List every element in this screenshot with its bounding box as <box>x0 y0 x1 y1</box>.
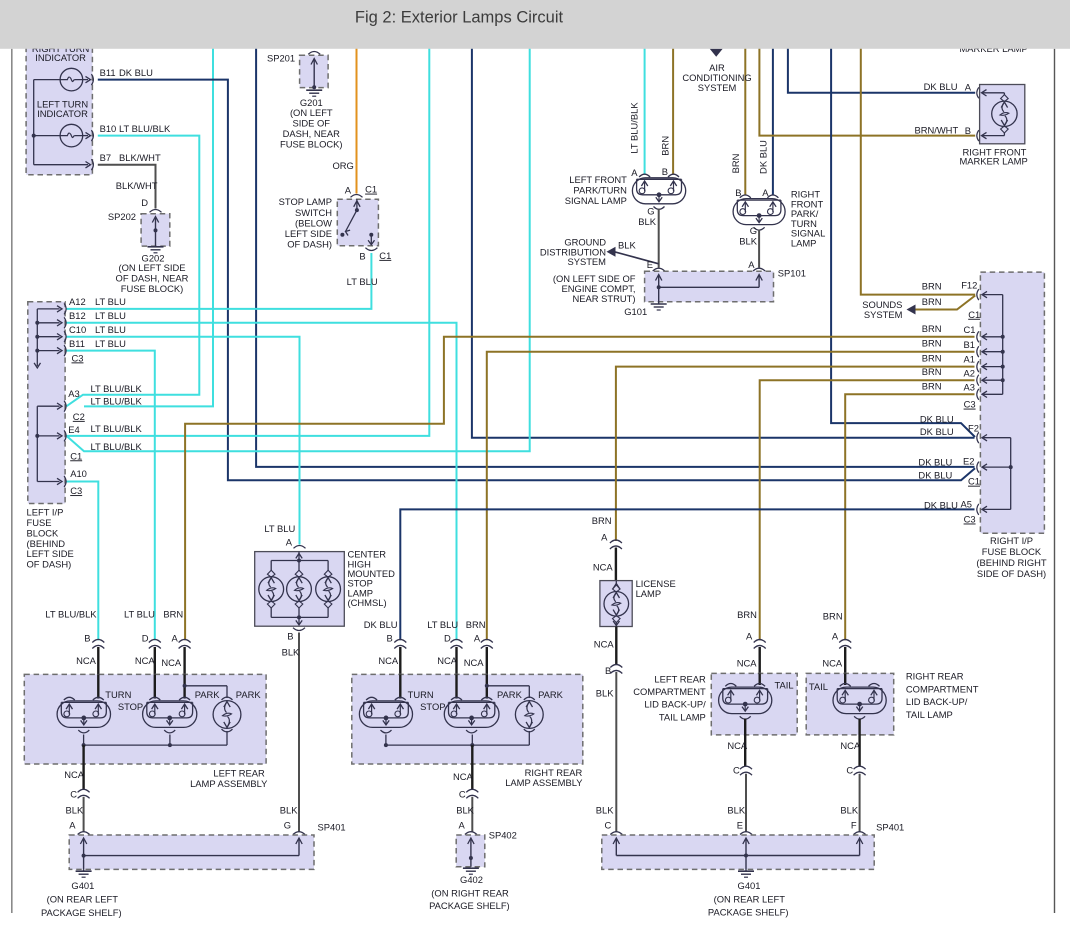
svg-text:BLOCK: BLOCK <box>27 527 60 538</box>
svg-text:PARK: PARK <box>538 689 564 700</box>
svg-text:D: D <box>141 197 148 208</box>
svg-text:B: B <box>84 632 90 643</box>
svg-text:SP201: SP201 <box>267 53 295 64</box>
ground G401 left <box>83 869 85 870</box>
svg-text:SYSTEM: SYSTEM <box>567 256 606 267</box>
left fuse block internal bus lower <box>36 406 38 481</box>
marker lamp bulb <box>992 101 1017 126</box>
left turn indicator bulb <box>60 124 83 147</box>
svg-text:C: C <box>605 820 612 831</box>
svg-text:NCA: NCA <box>161 657 182 668</box>
pin B of switch <box>365 248 377 251</box>
wire BRN/WHT trunk to right front marker lamp B <box>759 38 975 136</box>
wires NCA into right rear lamp <box>399 647 401 674</box>
splice SP401 right box <box>610 832 622 835</box>
svg-text:(ON LEFT: (ON LEFT <box>290 107 333 118</box>
svg-text:D: D <box>142 632 149 643</box>
svg-text:LEFT SIDE: LEFT SIDE <box>27 548 74 559</box>
SP101 internal wiring <box>658 276 660 288</box>
svg-text:DK BLU: DK BLU <box>920 413 954 424</box>
svg-text:G401: G401 <box>71 880 94 891</box>
svg-text:(BEHIND RIGHT: (BEHIND RIGHT <box>976 557 1047 568</box>
svg-text:A: A <box>748 259 755 270</box>
left front park/turn lamp bulb <box>632 178 685 204</box>
wire BLK to SP401 A <box>83 797 85 832</box>
svg-text:A: A <box>601 531 608 542</box>
svg-text:B10: B10 <box>100 123 117 134</box>
svg-text:PACKAGE SHELF): PACKAGE SHELF) <box>708 907 789 918</box>
svg-text:C: C <box>459 789 466 800</box>
svg-text:PARK: PARK <box>497 689 523 700</box>
svg-text:LT BLU/BLK: LT BLU/BLK <box>91 423 143 434</box>
svg-text:C1: C1 <box>968 476 980 487</box>
left rear PARK single bulb <box>213 701 241 729</box>
svg-text:BRN: BRN <box>730 154 741 174</box>
svg-text:PARK/TURN: PARK/TURN <box>573 185 626 196</box>
svg-text:LT BLU: LT BLU <box>347 276 378 287</box>
svg-text:SOUNDS: SOUNDS <box>862 299 902 310</box>
svg-text:F: F <box>851 820 857 831</box>
svg-text:BLK: BLK <box>280 805 298 816</box>
svg-text:PARK: PARK <box>195 689 221 700</box>
svg-text:A3: A3 <box>68 388 79 399</box>
svg-text:A: A <box>286 536 293 547</box>
svg-text:LT BLU/BLK: LT BLU/BLK <box>91 441 143 452</box>
svg-text:LAMP: LAMP <box>636 588 662 599</box>
svg-text:A: A <box>345 185 352 196</box>
svg-text:SIDE OF: SIDE OF <box>293 118 331 129</box>
svg-text:BLK: BLK <box>282 647 300 658</box>
right rear TURN bulb <box>359 701 412 728</box>
svg-text:LT BLU: LT BLU <box>264 523 295 534</box>
svg-text:FUSE BLOCK): FUSE BLOCK) <box>280 138 343 149</box>
svg-text:E: E <box>647 259 653 270</box>
left rear STOP/PARK dual bulb <box>143 701 197 728</box>
svg-text:NCA: NCA <box>727 740 748 751</box>
svg-text:C1: C1 <box>379 250 391 261</box>
svg-text:Fig 2: Exterior Lamps Circuit: Fig 2: Exterior Lamps Circuit <box>355 9 564 27</box>
right tail lamp TAIL bulb <box>833 687 886 714</box>
wire NCA inside right tail lamp box <box>844 673 846 685</box>
svg-text:DASH, NEAR: DASH, NEAR <box>283 128 341 139</box>
svg-text:A1: A1 <box>964 354 975 365</box>
svg-text:BRN: BRN <box>163 608 183 619</box>
pin B7 arrow <box>86 162 91 168</box>
center high mounted stop lamp box <box>255 552 345 627</box>
right rear ground bus <box>385 735 387 746</box>
svg-text:D: D <box>444 632 451 643</box>
wire LT BLU/BLK trunk to left front lamp A <box>644 38 646 174</box>
svg-text:LID BACK-UP/: LID BACK-UP/ <box>906 696 968 707</box>
svg-text:STOP LAMP: STOP LAMP <box>279 196 332 207</box>
svg-text:C1: C1 <box>964 324 976 335</box>
svg-text:LT BLU/BLK: LT BLU/BLK <box>91 383 143 394</box>
wire NCA into left tail lamp <box>759 647 761 673</box>
left rear lamp assembly box <box>24 674 266 764</box>
svg-text:A: A <box>965 82 972 93</box>
svg-text:C3: C3 <box>72 352 84 363</box>
header bar <box>0 0 1070 49</box>
wire LT BLU C10 to CHMSL <box>67 337 300 545</box>
svg-text:A: A <box>474 632 481 643</box>
svg-text:BRN: BRN <box>737 609 757 620</box>
ground G201 <box>306 89 322 91</box>
svg-text:C1: C1 <box>968 309 980 320</box>
wire NCA into license lamp <box>615 548 617 582</box>
svg-text:A: A <box>69 820 76 831</box>
svg-text:BRN: BRN <box>922 366 942 377</box>
svg-text:SYSTEM: SYSTEM <box>864 309 903 320</box>
svg-text:INDICATOR: INDICATOR <box>37 108 88 119</box>
wires NCA inside right rear lamp box <box>399 674 401 698</box>
splice SP401 left box <box>78 832 90 835</box>
wire DK BLU trunk to F2 lower <box>472 38 975 438</box>
svg-text:BLK: BLK <box>66 805 84 816</box>
svg-text:E4: E4 <box>68 424 79 435</box>
license lamp box <box>600 581 632 627</box>
svg-text:A: A <box>172 632 179 643</box>
wire NCA into right tail lamp <box>844 647 846 673</box>
wire LT BLU B11pin to left rear lamp D <box>67 351 155 641</box>
left rear ground bus <box>83 735 85 746</box>
SP402 internal wire <box>470 840 472 867</box>
svg-text:LT BLU: LT BLU <box>95 310 126 321</box>
svg-text:DK BLU: DK BLU <box>918 457 952 468</box>
svg-text:C3: C3 <box>964 399 976 410</box>
wire BRN B1 to right rear lamp A <box>487 352 975 641</box>
svg-text:STOP: STOP <box>420 701 445 712</box>
svg-text:SP401: SP401 <box>318 822 346 833</box>
svg-text:LT BLU/BLK: LT BLU/BLK <box>119 123 171 134</box>
SP202 internal wire <box>155 218 157 246</box>
right fuse block pin arcs <box>977 289 979 300</box>
svg-text:NCA: NCA <box>464 657 485 668</box>
svg-text:INDICATOR: INDICATOR <box>35 52 86 63</box>
wire BRN A3 to right tail lamp <box>845 394 974 640</box>
svg-text:COMPARTMENT: COMPARTMENT <box>906 683 979 694</box>
svg-text:C1: C1 <box>70 450 82 461</box>
svg-text:TAIL LAMP: TAIL LAMP <box>906 709 953 720</box>
CHMSL bulb 2 <box>287 577 312 602</box>
CHMSL bulb 3 <box>316 577 341 602</box>
svg-text:OF DASH): OF DASH) <box>287 239 332 250</box>
wire BLK to SP401 E <box>745 774 747 832</box>
svg-text:LT BLU: LT BLU <box>95 296 126 307</box>
svg-text:G401: G401 <box>738 880 761 891</box>
svg-text:LAMP ASSEMBLY: LAMP ASSEMBLY <box>190 778 268 789</box>
svg-text:C3: C3 <box>70 485 82 496</box>
svg-text:LEFT REAR: LEFT REAR <box>654 674 706 685</box>
wire DK BLU trunk to E2 upper <box>256 38 974 467</box>
splice SP402 box <box>465 832 477 835</box>
svg-text:BRN: BRN <box>592 515 612 526</box>
svg-text:C: C <box>70 789 77 800</box>
ground G402 <box>463 867 479 869</box>
svg-text:LEFT REAR: LEFT REAR <box>213 767 265 778</box>
svg-text:SIGNAL LAMP: SIGNAL LAMP <box>565 195 627 206</box>
svg-text:BLK: BLK <box>618 240 636 251</box>
svg-text:C: C <box>846 765 853 776</box>
wire DK BLU B11 from left turn indicator to E2 <box>98 80 975 481</box>
wire BLK right front lamp G to SP101 A <box>758 230 760 268</box>
wire LT BLU B12 to right rear lamp D <box>67 323 457 640</box>
svg-text:LT BLU: LT BLU <box>427 619 458 630</box>
left fuse block internal bus upper <box>36 309 38 366</box>
svg-text:DK BLU: DK BLU <box>924 500 958 511</box>
svg-text:BLK: BLK <box>596 804 614 815</box>
svg-text:(BELOW: (BELOW <box>295 217 332 228</box>
ground distribution system arrow <box>607 247 616 257</box>
wire BLK CHMSL to SP401 G <box>298 633 300 832</box>
wire BLK/WHT B7 to SP202 <box>98 165 156 209</box>
svg-text:A12: A12 <box>69 296 86 307</box>
wire BRN C1 to left rear lamp A <box>185 337 974 640</box>
svg-text:B: B <box>965 125 971 136</box>
wire LT BLU trunk to E4 upper <box>67 38 430 436</box>
svg-text:TURN: TURN <box>105 689 131 700</box>
splice SP202 box <box>150 210 162 213</box>
right tail lamp box <box>806 673 894 735</box>
svg-text:FUSE BLOCK: FUSE BLOCK <box>982 546 1042 557</box>
svg-text:NCA: NCA <box>737 657 758 668</box>
svg-text:NCA: NCA <box>437 655 458 666</box>
svg-text:SYSTEM: SYSTEM <box>698 82 737 93</box>
left tail lamp box <box>711 673 797 735</box>
svg-text:E: E <box>737 820 743 831</box>
svg-text:SIDE OF DASH): SIDE OF DASH) <box>977 568 1046 579</box>
svg-text:TAIL: TAIL <box>809 681 828 692</box>
wire BLK left front lamp G to SP101 E <box>658 209 660 268</box>
svg-text:LT BLU/BLK: LT BLU/BLK <box>91 395 143 406</box>
svg-text:BRN: BRN <box>922 338 942 349</box>
wire DK BLU trunk to right front lamp A <box>772 38 774 195</box>
svg-text:BRN: BRN <box>922 281 942 292</box>
svg-text:C3: C3 <box>964 514 976 525</box>
svg-text:NCA: NCA <box>453 771 474 782</box>
svg-text:BRN: BRN <box>922 323 942 334</box>
wire BRN trunk to F12 <box>861 38 975 295</box>
svg-text:A5: A5 <box>961 499 972 510</box>
svg-text:(CHMSL): (CHMSL) <box>348 597 387 608</box>
right rear assembly exit wire <box>471 745 473 789</box>
svg-text:(ON REAR LEFT: (ON REAR LEFT <box>47 894 119 905</box>
CHMSL internal wiring <box>298 552 300 561</box>
wire DK BLU trunk to right front marker lamp A <box>788 38 975 93</box>
svg-text:B: B <box>662 166 668 177</box>
svg-text:LT BLU: LT BLU <box>124 608 155 619</box>
svg-text:NCA: NCA <box>135 655 156 666</box>
svg-text:BLK: BLK <box>739 235 757 246</box>
svg-text:F12: F12 <box>961 279 977 290</box>
SP401 left internal wiring <box>83 840 85 856</box>
svg-text:SP401: SP401 <box>876 822 904 833</box>
wire BRN A2 to left tail lamp <box>760 380 975 640</box>
svg-text:G201: G201 <box>300 97 323 108</box>
wire BRN A1 to license lamp <box>616 367 975 541</box>
svg-text:C10: C10 <box>69 324 86 335</box>
svg-text:B: B <box>287 630 293 641</box>
svg-text:BLK: BLK <box>840 804 858 815</box>
CHMSL bulb 1 <box>259 577 284 602</box>
svg-text:BRN: BRN <box>922 296 942 307</box>
svg-text:B12: B12 <box>69 310 86 321</box>
page border left <box>11 49 13 913</box>
wire BRN trunk to left front lamp B <box>672 38 674 174</box>
svg-text:NCA: NCA <box>594 639 615 650</box>
svg-text:PACKAGE SHELF): PACKAGE SHELF) <box>429 900 510 911</box>
svg-text:(ON RIGHT REAR: (ON RIGHT REAR <box>431 887 509 898</box>
svg-text:A10: A10 <box>70 468 87 479</box>
svg-text:TAIL: TAIL <box>775 680 794 691</box>
svg-text:DK BLU: DK BLU <box>119 67 153 78</box>
svg-text:PARK: PARK <box>236 689 262 700</box>
wire BLK license lamp to SP401 C <box>615 672 617 832</box>
svg-text:LEFT FRONT: LEFT FRONT <box>569 174 627 185</box>
right front park/turn lamp bulb <box>733 199 785 225</box>
splice SP101 box <box>653 268 665 271</box>
right fuse block internal bus upper <box>1002 295 1004 395</box>
wire BRN F12 to sounds system <box>914 296 975 310</box>
air conditioning system off-page arrow <box>710 49 723 57</box>
svg-text:NCA: NCA <box>76 655 97 666</box>
right I/P fuse block box <box>980 272 1044 533</box>
svg-text:LID BACK-UP/: LID BACK-UP/ <box>644 699 706 710</box>
svg-text:RIGHT I/P: RIGHT I/P <box>990 535 1033 546</box>
left rear TURN bulb <box>57 701 110 728</box>
right fuse block internal bus lower <box>1010 438 1012 510</box>
svg-text:BLK: BLK <box>596 687 614 698</box>
right rear STOP/PARK dual bulb <box>444 701 499 728</box>
right rear PARK single bulb <box>515 701 543 729</box>
svg-text:C1: C1 <box>365 184 377 195</box>
svg-text:DK BLU: DK BLU <box>918 470 952 481</box>
svg-text:B11: B11 <box>69 338 85 349</box>
sounds system arrow <box>907 305 916 315</box>
svg-text:TURN: TURN <box>408 689 434 700</box>
SP401 right internal wiring <box>615 840 617 856</box>
svg-text:A2: A2 <box>964 367 975 378</box>
svg-text:FUSE BLOCK): FUSE BLOCK) <box>121 283 184 294</box>
wire ORG trunk to stop lamp switch <box>356 38 358 194</box>
svg-text:BLK: BLK <box>638 216 656 227</box>
ground G401 right <box>745 869 747 870</box>
svg-text:LEFT I/P: LEFT I/P <box>27 506 64 517</box>
svg-text:BLK: BLK <box>456 805 474 816</box>
svg-text:A: A <box>459 820 466 831</box>
svg-text:LT BLU/BLK: LT BLU/BLK <box>45 608 97 619</box>
svg-text:BLK/WHT: BLK/WHT <box>116 180 158 191</box>
svg-text:DK BLU: DK BLU <box>758 140 769 174</box>
right rear PARK branch wire <box>485 684 489 688</box>
svg-text:(ON REAR LEFT: (ON REAR LEFT <box>714 894 786 905</box>
wire LT BLU/BLK B10 to A3 upper <box>67 136 200 407</box>
left rear PARK branch wire <box>183 684 187 688</box>
svg-text:LEFT SIDE: LEFT SIDE <box>285 228 332 239</box>
svg-text:COMPARTMENT: COMPARTMENT <box>633 686 706 697</box>
svg-text:A3: A3 <box>964 381 975 392</box>
indicator internal bus wire <box>33 80 35 165</box>
svg-text:LT BLU: LT BLU <box>95 338 126 349</box>
wire LT BLU E4 lower to top <box>67 38 530 451</box>
svg-text:E2: E2 <box>963 455 974 466</box>
svg-text:G402: G402 <box>460 874 483 885</box>
wire LT BLU switch B to A12 <box>67 253 372 309</box>
svg-text:B: B <box>387 632 393 643</box>
license lamp bulb <box>615 581 617 586</box>
wire DK BLU trunk to F2 upper <box>831 38 975 437</box>
svg-text:NCA: NCA <box>822 657 843 668</box>
pin B10 arrow <box>83 135 88 137</box>
svg-text:SP402: SP402 <box>489 830 517 841</box>
right rear lamp assembly box <box>352 674 583 764</box>
svg-text:(BEHIND: (BEHIND <box>27 538 66 549</box>
svg-text:DK BLU: DK BLU <box>920 426 954 437</box>
svg-text:LT BLU/BLK: LT BLU/BLK <box>629 102 640 154</box>
page border right <box>1054 49 1056 913</box>
wire NCA inside left tail lamp box <box>759 673 761 685</box>
splice SP201 box <box>308 52 320 55</box>
svg-text:FUSE: FUSE <box>27 517 52 528</box>
wire LT BLU trunk to A3 lower <box>84 38 213 406</box>
svg-text:G: G <box>284 820 291 831</box>
wire BLK to SP402 A <box>471 797 473 832</box>
svg-text:(ON LEFT SIDE: (ON LEFT SIDE <box>118 262 185 273</box>
wires NCA into left rear lamp <box>97 647 99 674</box>
left I/P fuse block box <box>28 302 65 504</box>
wire BRN trunk to right front lamp B <box>744 38 746 195</box>
svg-text:BRN: BRN <box>922 380 942 391</box>
svg-text:RIGHT REAR: RIGHT REAR <box>906 671 964 682</box>
svg-text:BLK/WHT: BLK/WHT <box>119 152 161 163</box>
ground G101 <box>651 303 667 305</box>
svg-text:BRN: BRN <box>823 610 843 621</box>
svg-text:C: C <box>733 765 740 776</box>
wire DK BLU A5 to right rear lamp B <box>400 509 974 640</box>
svg-text:LAMP ASSEMBLY: LAMP ASSEMBLY <box>505 777 583 788</box>
marker lamp internal wiring <box>982 90 987 96</box>
svg-text:BRN/WHT: BRN/WHT <box>914 125 958 136</box>
svg-text:BRN: BRN <box>466 619 486 630</box>
ground G202 <box>148 246 164 248</box>
svg-text:A: A <box>631 167 638 178</box>
svg-text:B11: B11 <box>100 67 116 78</box>
wire NCA below license lamp <box>615 627 617 666</box>
stop lamp switch box <box>351 195 363 198</box>
svg-text:SP101: SP101 <box>778 267 806 278</box>
right front marker lamp box <box>977 87 979 98</box>
svg-text:NCA: NCA <box>593 561 614 572</box>
svg-text:SWITCH: SWITCH <box>295 207 332 218</box>
svg-text:BRN: BRN <box>922 353 942 364</box>
svg-text:C2: C2 <box>73 411 85 422</box>
svg-text:TAIL LAMP: TAIL LAMP <box>659 711 706 722</box>
svg-text:B7: B7 <box>100 152 111 163</box>
svg-text:BRN: BRN <box>660 136 671 156</box>
svg-text:MARKER LAMP: MARKER LAMP <box>959 156 1027 167</box>
svg-text:F2: F2 <box>968 423 979 434</box>
left rear assembly exit wire <box>82 745 84 789</box>
svg-text:ORG: ORG <box>332 160 353 171</box>
svg-text:B: B <box>359 251 365 262</box>
wire LT BLU/BLK A10 to left rear lamp B <box>67 482 99 641</box>
svg-text:LAMP: LAMP <box>791 237 817 248</box>
svg-text:SP202: SP202 <box>108 211 136 222</box>
svg-text:NCA: NCA <box>840 740 861 751</box>
svg-text:PACKAGE SHELF): PACKAGE SHELF) <box>41 907 122 918</box>
svg-text:G101: G101 <box>624 306 647 317</box>
right turn indicator bulb <box>60 68 83 91</box>
switch contacts <box>356 199 358 211</box>
